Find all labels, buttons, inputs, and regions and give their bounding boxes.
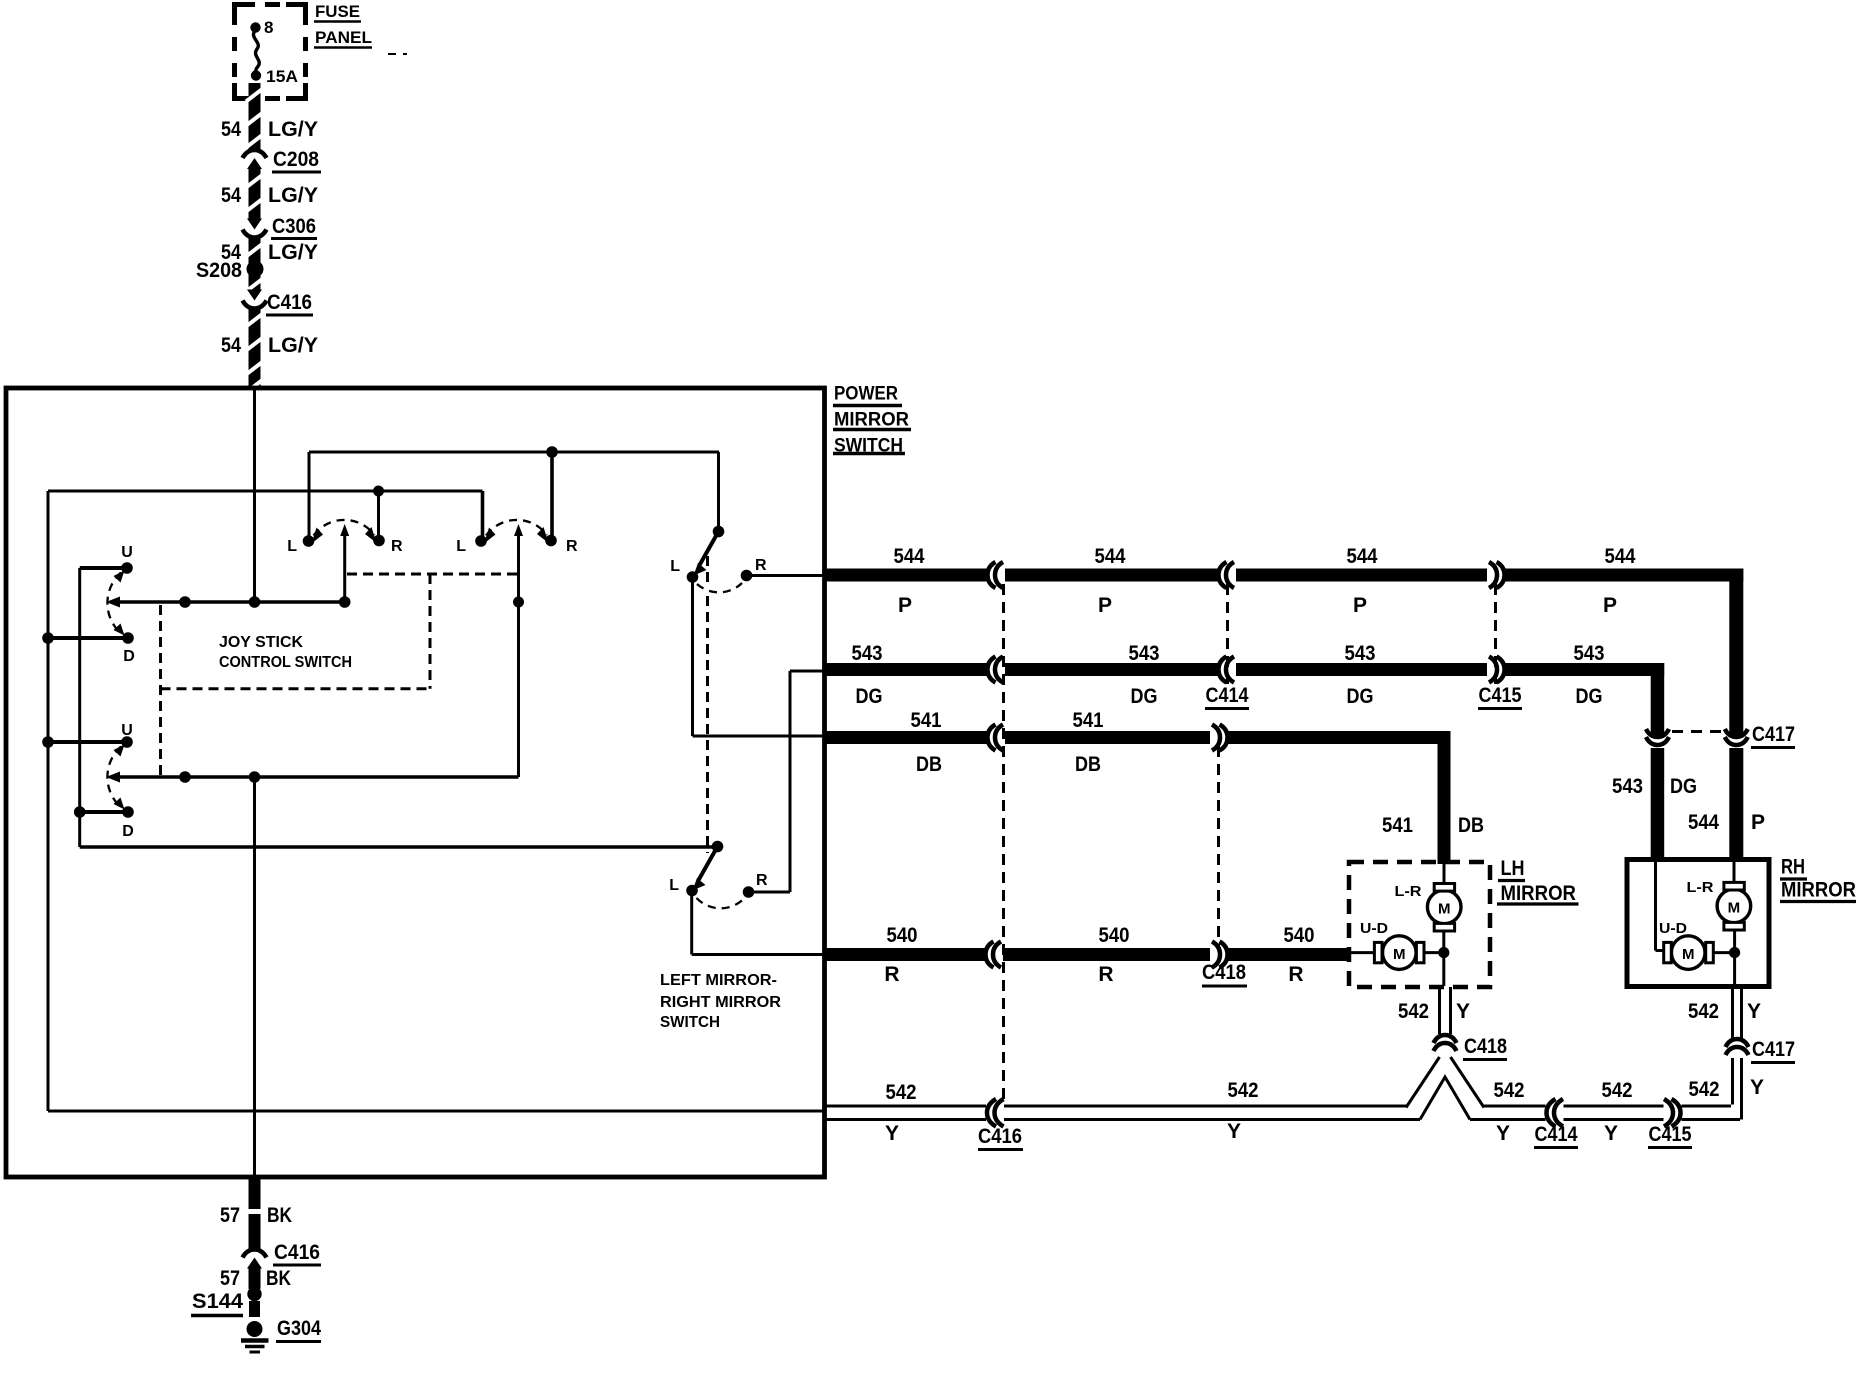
svg-text:L-R: L-R (1687, 879, 1714, 896)
svg-text:LG/Y: LG/Y (268, 118, 318, 141)
ground drop from lower wiper to 57 BK (253, 777, 256, 1177)
connector C414 on 543 (1219, 657, 1227, 683)
wire 542 Y from LH mirror down (1438, 987, 1441, 1034)
svg-text:SWITCH: SWITCH (660, 1014, 720, 1031)
svg-text:RH: RH (1781, 856, 1805, 879)
connector C416 on 543 (988, 657, 996, 683)
wire 54 LG/Y segment C416 to switch (249, 308, 261, 390)
wire 540 R segment 2 (1003, 948, 1210, 961)
connector C306 (in-line) (247, 219, 262, 230)
svg-text:57: 57 (220, 1267, 240, 1290)
joystick U contact (lower) (48, 740, 127, 744)
RH mirror internal junction (1713, 951, 1735, 954)
svg-text:M: M (1682, 946, 1695, 963)
svg-text:MIRROR: MIRROR (1781, 879, 1856, 902)
L-R switch 1 contacts and arc (303, 535, 315, 547)
junction nodes on upper wiper (179, 596, 191, 608)
connector C208 (in-line) (243, 150, 267, 158)
RH L-R motor M3 (1733, 860, 1736, 886)
svg-text:LG/Y: LG/Y (268, 334, 318, 357)
svg-text:M: M (1393, 946, 1406, 963)
svg-text:544: 544 (1688, 811, 1719, 834)
wire 57 BK to splice (249, 1267, 261, 1289)
svg-text:540: 540 (887, 924, 918, 947)
svg-text:C418: C418 (1202, 961, 1246, 984)
splice S208 (247, 261, 264, 278)
ground symbol (241, 1338, 269, 1342)
joystick wiper arm (upper) with arrow (112, 600, 345, 604)
svg-text:54: 54 (221, 334, 241, 357)
node: R2 riser junction (546, 446, 558, 458)
joystick mechanical linkage (dashed) (159, 605, 162, 776)
svg-text:Y: Y (885, 1122, 899, 1145)
LH L-R motor M1 (1443, 862, 1446, 886)
svg-text:R: R (391, 538, 403, 555)
wire 54 LG/Y segment from fuse to C208 (249, 83, 261, 151)
wire 543 DG segment 4 with corner (1504, 663, 1664, 676)
joystick wiper arm (lower) with arrow (112, 775, 519, 779)
svg-text:DB: DB (916, 753, 942, 776)
wire: selector upper R to 544 output (747, 574, 827, 577)
svg-text:542: 542 (1228, 1079, 1259, 1102)
wire stub to ground (249, 1301, 260, 1317)
RH mirror box (1627, 860, 1769, 987)
svg-text:542: 542 (1398, 1000, 1429, 1023)
svg-text:C306: C306 (272, 215, 316, 238)
fuse F (15A) (250, 22, 260, 32)
svg-text:544: 544 (894, 545, 925, 568)
svg-text:BK: BK (266, 1267, 291, 1290)
connector C415 on 542 (1672, 1099, 1681, 1127)
svg-text:M: M (1728, 900, 1741, 917)
wire 57 BK from switch box (249, 1177, 261, 1209)
svg-text:PANEL: PANEL (315, 28, 372, 47)
selector blade (upper) with arrow (699, 532, 719, 567)
wire: L1 riser (308, 452, 311, 541)
svg-text:542: 542 (886, 1081, 917, 1104)
LH mirror box (dashed) (1349, 862, 1490, 987)
connector C418 (mirror side) (1434, 1035, 1457, 1043)
connector C418 plane (dashed) (1217, 746, 1220, 946)
svg-text:U: U (121, 722, 133, 739)
svg-text:54: 54 (221, 118, 241, 141)
selector blade (lower) with arrow (698, 847, 718, 882)
svg-text:DG: DG (856, 685, 883, 708)
svg-text:R: R (1098, 963, 1113, 986)
joystick U contact (upper) (80, 566, 127, 570)
splice S144 (247, 1287, 261, 1301)
wire 54 LG/Y segment C306 to C416 through splice S208 (249, 237, 261, 291)
svg-text:L: L (669, 877, 679, 894)
svg-text:LEFT MIRROR-: LEFT MIRROR- (660, 972, 777, 989)
wire 544 P segment 4 with corner (1504, 569, 1743, 582)
svg-text:LG/Y: LG/Y (268, 241, 318, 264)
svg-text:U: U (121, 544, 133, 561)
svg-text:542: 542 (1688, 1000, 1719, 1023)
svg-text:R: R (755, 557, 767, 574)
wire 542 junction tee (hollow) (1406, 1057, 1440, 1108)
joystick D contact (lower) (80, 810, 128, 814)
svg-text:541: 541 (1073, 709, 1104, 732)
svg-text:M: M (1438, 901, 1451, 918)
C417 plane dashes (1672, 730, 1722, 733)
svg-text:DB: DB (1458, 814, 1484, 837)
connector C415 on 543 (1497, 657, 1505, 683)
selector R contact (lower) (743, 886, 755, 898)
svg-text:C416: C416 (274, 1241, 320, 1264)
wire 541 DB segment 3 with corner down to LH mirror (1227, 731, 1451, 744)
svg-text:DG: DG (1576, 685, 1603, 708)
connector C414 on 542 (1547, 1099, 1556, 1127)
connector C416 on 540 (986, 942, 994, 968)
svg-text:FUSE: FUSE (315, 2, 360, 21)
svg-text:P: P (1353, 594, 1367, 617)
selector R contact (upper) (741, 570, 753, 582)
wire: bottom common return (y=1111) (48, 1110, 826, 1113)
svg-text:P: P (898, 594, 912, 617)
wire: R2 riser (550, 452, 554, 540)
connector C418 on 541 (1220, 725, 1228, 751)
feed drop from 54 LG/Y to upper wiper (253, 389, 256, 602)
svg-text:543: 543 (1574, 642, 1605, 665)
svg-text:L: L (670, 558, 680, 575)
connector C418 on 540 (1220, 942, 1228, 968)
svg-text:C417: C417 (1752, 723, 1795, 746)
svg-text:BK: BK (267, 1204, 292, 1227)
wire 544 P segment 3 (1236, 569, 1487, 582)
connector C417 on 543 vertical (1646, 729, 1669, 737)
wire 543 DG segment 1 (824, 663, 988, 676)
wire: selector lower L to 540 output (690, 891, 693, 955)
wire: R1 riser (377, 491, 380, 540)
wire: U1/D2 tie bus (x=80) and lower wiper feed (78, 568, 81, 847)
wire: left common bus (x=48) (47, 491, 50, 1111)
svg-text:S144: S144 (192, 1290, 243, 1313)
svg-text:POWER: POWER (834, 384, 898, 405)
svg-text:R: R (884, 963, 899, 986)
wire 541 DB segment 2 (1005, 731, 1210, 744)
connector C416 on 541 (988, 725, 996, 751)
connector C415 plane (dashed) (1494, 584, 1497, 684)
svg-text:U-D: U-D (1659, 920, 1687, 937)
svg-text:C414: C414 (1535, 1123, 1578, 1146)
svg-text:57: 57 (220, 1204, 240, 1227)
svg-text:Y: Y (1604, 1122, 1618, 1145)
svg-text:543: 543 (1129, 642, 1160, 665)
svg-text:JOY STICK: JOY STICK (219, 634, 303, 651)
svg-text:DB: DB (1075, 753, 1101, 776)
node: R1 riser junction (373, 486, 384, 497)
svg-text:540: 540 (1284, 924, 1315, 947)
svg-text:Y: Y (1227, 1120, 1241, 1143)
L-R switch 2 contacts and arc (475, 535, 487, 547)
svg-text:Y: Y (1456, 1000, 1470, 1023)
connector C416 on 544 (988, 562, 996, 588)
mirror selector switch (lower pole) pivot (712, 841, 724, 853)
svg-text:541: 541 (911, 709, 942, 732)
junction nodes on lower wiper (179, 771, 191, 783)
svg-text:P: P (1098, 594, 1112, 617)
svg-text:540: 540 (1099, 924, 1130, 947)
svg-text:P: P (1751, 811, 1765, 834)
svg-text:543: 543 (852, 642, 883, 665)
svg-text:541: 541 (1382, 814, 1413, 837)
connector C416 on 542 (987, 1099, 996, 1127)
joystick D contact (upper) (48, 636, 128, 640)
svg-text:8: 8 (264, 18, 273, 37)
svg-text:C415: C415 (1649, 1123, 1692, 1146)
svg-text:DG: DG (1131, 685, 1158, 708)
L-R switch 2 wiper arrow riser (517, 535, 520, 777)
svg-text:DG: DG (1670, 775, 1697, 798)
mirror selector switch (upper pole) pivot (713, 526, 725, 538)
svg-text:R: R (566, 538, 578, 555)
svg-text:542: 542 (1689, 1078, 1720, 1101)
svg-text:D: D (123, 648, 135, 665)
svg-text:C208: C208 (273, 148, 319, 171)
svg-text:542: 542 (1494, 1079, 1525, 1102)
svg-text:C418: C418 (1464, 1035, 1507, 1058)
wire: second bus (y=491) to L2 (48, 490, 483, 493)
stray scan marks (388, 53, 396, 55)
RH U-D motor M4 (1654, 860, 1657, 951)
wire 540 R segment 1 (824, 948, 986, 961)
selector mechanical linkage (dashed) (706, 556, 709, 584)
svg-text:C415: C415 (1479, 684, 1522, 707)
node on switch-2 wiper riser (513, 597, 524, 608)
wire 542 Y RH riser (hollow) (1731, 1058, 1734, 1105)
LH mirror internal junction (1424, 951, 1444, 954)
svg-text:R: R (756, 872, 768, 889)
wire 543 DG segment 2 (1005, 663, 1219, 676)
svg-text:U-D: U-D (1360, 920, 1388, 937)
svg-text:542: 542 (1602, 1079, 1633, 1102)
svg-text:C417: C417 (1752, 1038, 1795, 1061)
svg-text:CONTROL SWITCH: CONTROL SWITCH (219, 654, 352, 671)
svg-text:L-R: L-R (1395, 883, 1422, 900)
selector travel arc (upper, dashed) (697, 583, 742, 592)
joystick travel arc (upper U-D, dashed) (107, 573, 121, 634)
L-R switch 1 wiper arrow riser (343, 535, 346, 602)
svg-text:RIGHT MIRROR: RIGHT MIRROR (660, 994, 781, 1011)
connector C417 (mirror side) (1726, 1039, 1749, 1047)
svg-text:C414: C414 (1206, 684, 1249, 707)
svg-text:P: P (1603, 594, 1617, 617)
LH U-D motor M2 (1351, 951, 1376, 954)
joystick travel arc (lower U-D, dashed) (107, 747, 121, 808)
wire 544 P segment 2 (1005, 569, 1219, 582)
selector travel arc (lower, dashed) (697, 898, 745, 908)
wire: mirror-select switch pivot riser (717, 452, 720, 532)
svg-text:Y: Y (1747, 1000, 1761, 1023)
svg-text:G304: G304 (277, 1317, 321, 1340)
svg-text:544: 544 (1095, 545, 1126, 568)
wire: selector lower R to 543 output (790, 670, 826, 673)
svg-text:L: L (456, 538, 466, 555)
connector C417 on 544 vertical (1725, 729, 1748, 737)
svg-text:54: 54 (221, 241, 241, 264)
svg-text:MIRROR: MIRROR (1501, 882, 1577, 905)
wire 541 DB segment 1 (824, 731, 988, 744)
svg-text:C416: C416 (978, 1125, 1022, 1148)
ground G304 (247, 1321, 263, 1337)
wire 544 P segment 1 (824, 569, 988, 582)
connector C414 on 544 (1219, 562, 1227, 588)
svg-text:543: 543 (1612, 775, 1643, 798)
svg-text:544: 544 (1347, 545, 1378, 568)
wire 542 Y horizontal run (bottom line) (826, 1118, 986, 1121)
svg-text:Y: Y (1496, 1122, 1510, 1145)
wire 540 R segment 3 to LH mirror (1227, 948, 1351, 961)
selector L contact (upper) (687, 571, 699, 583)
connector C416 plane (dashed) (1002, 584, 1005, 1103)
svg-text:543: 543 (1345, 642, 1376, 665)
svg-text:Y: Y (1750, 1076, 1764, 1099)
svg-text:DG: DG (1347, 685, 1374, 708)
svg-text:LH: LH (1501, 857, 1525, 880)
svg-text:L: L (287, 538, 297, 555)
svg-text:C416: C416 (267, 291, 312, 314)
wire: top bus L1-R2-pivot (y=452) (309, 451, 719, 454)
wire 54 LG/Y segment C208 to C306 (249, 167, 261, 220)
connector C415 on 544 (1497, 562, 1505, 588)
wire: selector upper L to 541 output (691, 577, 694, 736)
svg-text:544: 544 (1605, 545, 1636, 568)
wire 542 Y horizontal run (top line) (826, 1105, 986, 1108)
svg-text:54: 54 (221, 184, 241, 207)
wire 543 DG segment 3 (1236, 663, 1487, 676)
svg-text:D: D (122, 823, 134, 840)
svg-text:15A: 15A (266, 67, 298, 86)
power mirror switch box (6, 388, 825, 1177)
selector L contact (lower) (686, 885, 698, 897)
connector C416 (ground side) (243, 1250, 267, 1258)
svg-text:LG/Y: LG/Y (268, 184, 318, 207)
fuse panel (dashed box) (235, 5, 256, 26)
svg-text:MIRROR: MIRROR (834, 410, 909, 431)
svg-text:R: R (1288, 963, 1303, 986)
connector C416 (in-line) (247, 290, 262, 301)
connector C414 plane (dashed) (1226, 584, 1229, 684)
